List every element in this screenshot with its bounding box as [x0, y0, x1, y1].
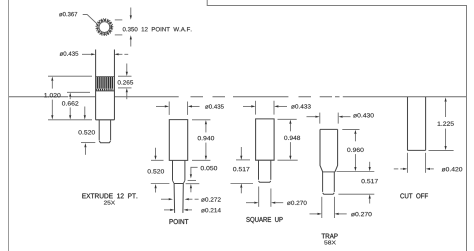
- view3 body: [256, 119, 275, 160]
- label SQUARE UP: [246, 217, 282, 223]
- dimension 0.662: [62, 92, 90, 119]
- label POINT: [170, 219, 189, 224]
- extension line part bottom view5: [429, 149, 454, 151]
- label TRAP: [322, 234, 338, 245]
- dimension 0.350 12 POINT W.A.F.: [115, 8, 192, 47]
- view4 pin: [323, 172, 335, 195]
- dimension diameter 0.214: [164, 208, 221, 212]
- dimension 0.960: [342, 129, 363, 171]
- view2 body: [169, 120, 187, 161]
- view3 pin: [259, 160, 271, 182]
- dimension diameter 0.270 view4: [310, 197, 372, 218]
- shared extension line taper end: [337, 171, 375, 173]
- dimension 0.948: [278, 119, 301, 160]
- dimension 1.020: [44, 76, 92, 119]
- border left: [8, 0, 10, 251]
- dimension diameter 0.435 view2: [156, 102, 224, 115]
- dimension 0.517 view4: [338, 162, 377, 204]
- dimension diameter 0.430: [307, 113, 374, 124]
- view5 cut off part: [408, 97, 426, 150]
- datum stock line: [9, 96, 466, 98]
- dimension 0.050 point chamfer: [186, 166, 218, 192]
- dimension diameter 0.420: [394, 153, 462, 173]
- dimension 1.225: [438, 97, 454, 150]
- label CUT OFF: [400, 193, 428, 198]
- dimension 0.517 view3: [231, 147, 254, 193]
- view1 stock body outline: [96, 50, 115, 120]
- dimension diameter 0.270 view3: [246, 187, 307, 207]
- view1 knurl 12pt extruded band: [96, 76, 115, 91]
- view1 pin: [99, 120, 110, 143]
- dimension diameter 0.272: [161, 197, 221, 201]
- dimension 0.520 view2: [148, 148, 170, 193]
- dimension diameter 0.433: [243, 101, 311, 115]
- dimension 0.940: [192, 120, 214, 161]
- dimension diameter 0.435 view1: [60, 52, 129, 56]
- dimension 0.265 knurl: [118, 64, 133, 100]
- view4 body with trap taper: [320, 129, 338, 172]
- label EXTRUDE 12 PT.: [82, 193, 137, 204]
- view2 pin with chamfer and point: [173, 160, 185, 213]
- leader diameter 0.367: [59, 12, 97, 24]
- border frame top-right: [207, 0, 466, 251]
- view1 12-point end view circle: [96, 19, 113, 36]
- dimension 0.520 view1: [78, 107, 95, 155]
- extension line step view1: [48, 119, 92, 121]
